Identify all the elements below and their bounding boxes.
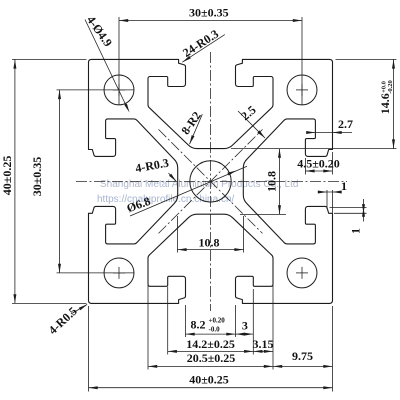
leader Ø6.8 — [130, 166, 247, 216]
leader 4-Ø4.9 — [85, 20, 128, 109]
svg-text:-0.0: -0.0 — [209, 325, 221, 333]
svg-text:8.2: 8.2 — [191, 318, 206, 332]
diagonal centerline SW-NE — [159, 129, 263, 233]
dim 1 notch width — [330, 207, 367, 209]
dim 1 notch depth — [326, 190, 328, 209]
dim 10.8 vertical — [231, 148, 397, 150]
svg-text:14.2±0.25: 14.2±0.25 — [186, 337, 235, 351]
svg-text:9.75: 9.75 — [292, 349, 313, 363]
dim 40±0.25 bottom — [88, 306, 90, 392]
leader 8-R2 — [190, 114, 203, 144]
corner hole bottom-left — [104, 258, 134, 288]
svg-text:40±0.25: 40±0.25 — [189, 373, 229, 387]
svg-text:2.7: 2.7 — [338, 117, 353, 131]
svg-text:1: 1 — [348, 228, 362, 234]
svg-text:10.8: 10.8 — [199, 235, 220, 249]
horizontal centerline — [76, 180, 347, 182]
dim 2.7 — [308, 132, 352, 134]
svg-text:10.8: 10.8 — [265, 171, 279, 192]
profile outline of 4040 aluminium extrusion — [89, 59, 333, 303]
corner hole top-left — [104, 75, 134, 105]
dim 30±0.35 left — [57, 89, 134, 91]
dim 8.2 +0.20/-0.0 and 3 bottom — [185, 305, 187, 337]
svg-text:1: 1 — [341, 179, 347, 193]
corner hole bottom-right — [287, 258, 317, 288]
hole cross at 119,272.9 — [113, 272, 125, 274]
svg-text:3.15: 3.15 — [253, 337, 274, 351]
svg-text:40±0.25: 40±0.25 — [0, 156, 14, 196]
leader 24-R0.3 — [182, 35, 225, 63]
svg-text:30±0.35: 30±0.35 — [189, 5, 229, 19]
svg-text:-0.20: -0.20 — [387, 80, 394, 94]
dim 14.2±0.25 and 3.15 bottom — [167, 287, 169, 355]
svg-text:+0.20: +0.20 — [209, 316, 226, 324]
dim 4.5±0.20 — [304, 158, 306, 175]
dim 2.5 web — [238, 111, 265, 138]
dim 20.5±0.25 and 9.75 bottom — [147, 259, 149, 370]
hole cross at 119,89.9 — [113, 89, 125, 91]
hole cross at 302,89.9 — [296, 89, 308, 91]
leader 4-R0.3 — [169, 173, 176, 181]
vertical centerline — [210, 52, 212, 311]
svg-text:3: 3 — [242, 319, 248, 333]
dim 40±0.25 left — [12, 58, 87, 60]
leader 4-R0.5 — [71, 305, 87, 315]
svg-text:https://cnaluprofile.cn.china.: https://cnaluprofile.cn.china.cn/ — [97, 194, 235, 205]
dim 14.6 right — [336, 58, 397, 60]
dim 30±0.35 top — [119, 20, 302, 22]
diagonal centerline NW-SE — [159, 129, 263, 233]
corner hole top-right — [287, 75, 317, 105]
center hole — [190, 161, 231, 202]
svg-text:14.6: 14.6 — [378, 93, 392, 114]
dim 10.8 horizontal — [176, 216, 178, 253]
svg-text:4.5±0.20: 4.5±0.20 — [297, 157, 340, 171]
svg-text:20.5±0.25: 20.5±0.25 — [187, 351, 236, 365]
svg-text:30±0.35: 30±0.35 — [30, 157, 44, 197]
hole cross at 302,272.9 — [296, 272, 308, 274]
